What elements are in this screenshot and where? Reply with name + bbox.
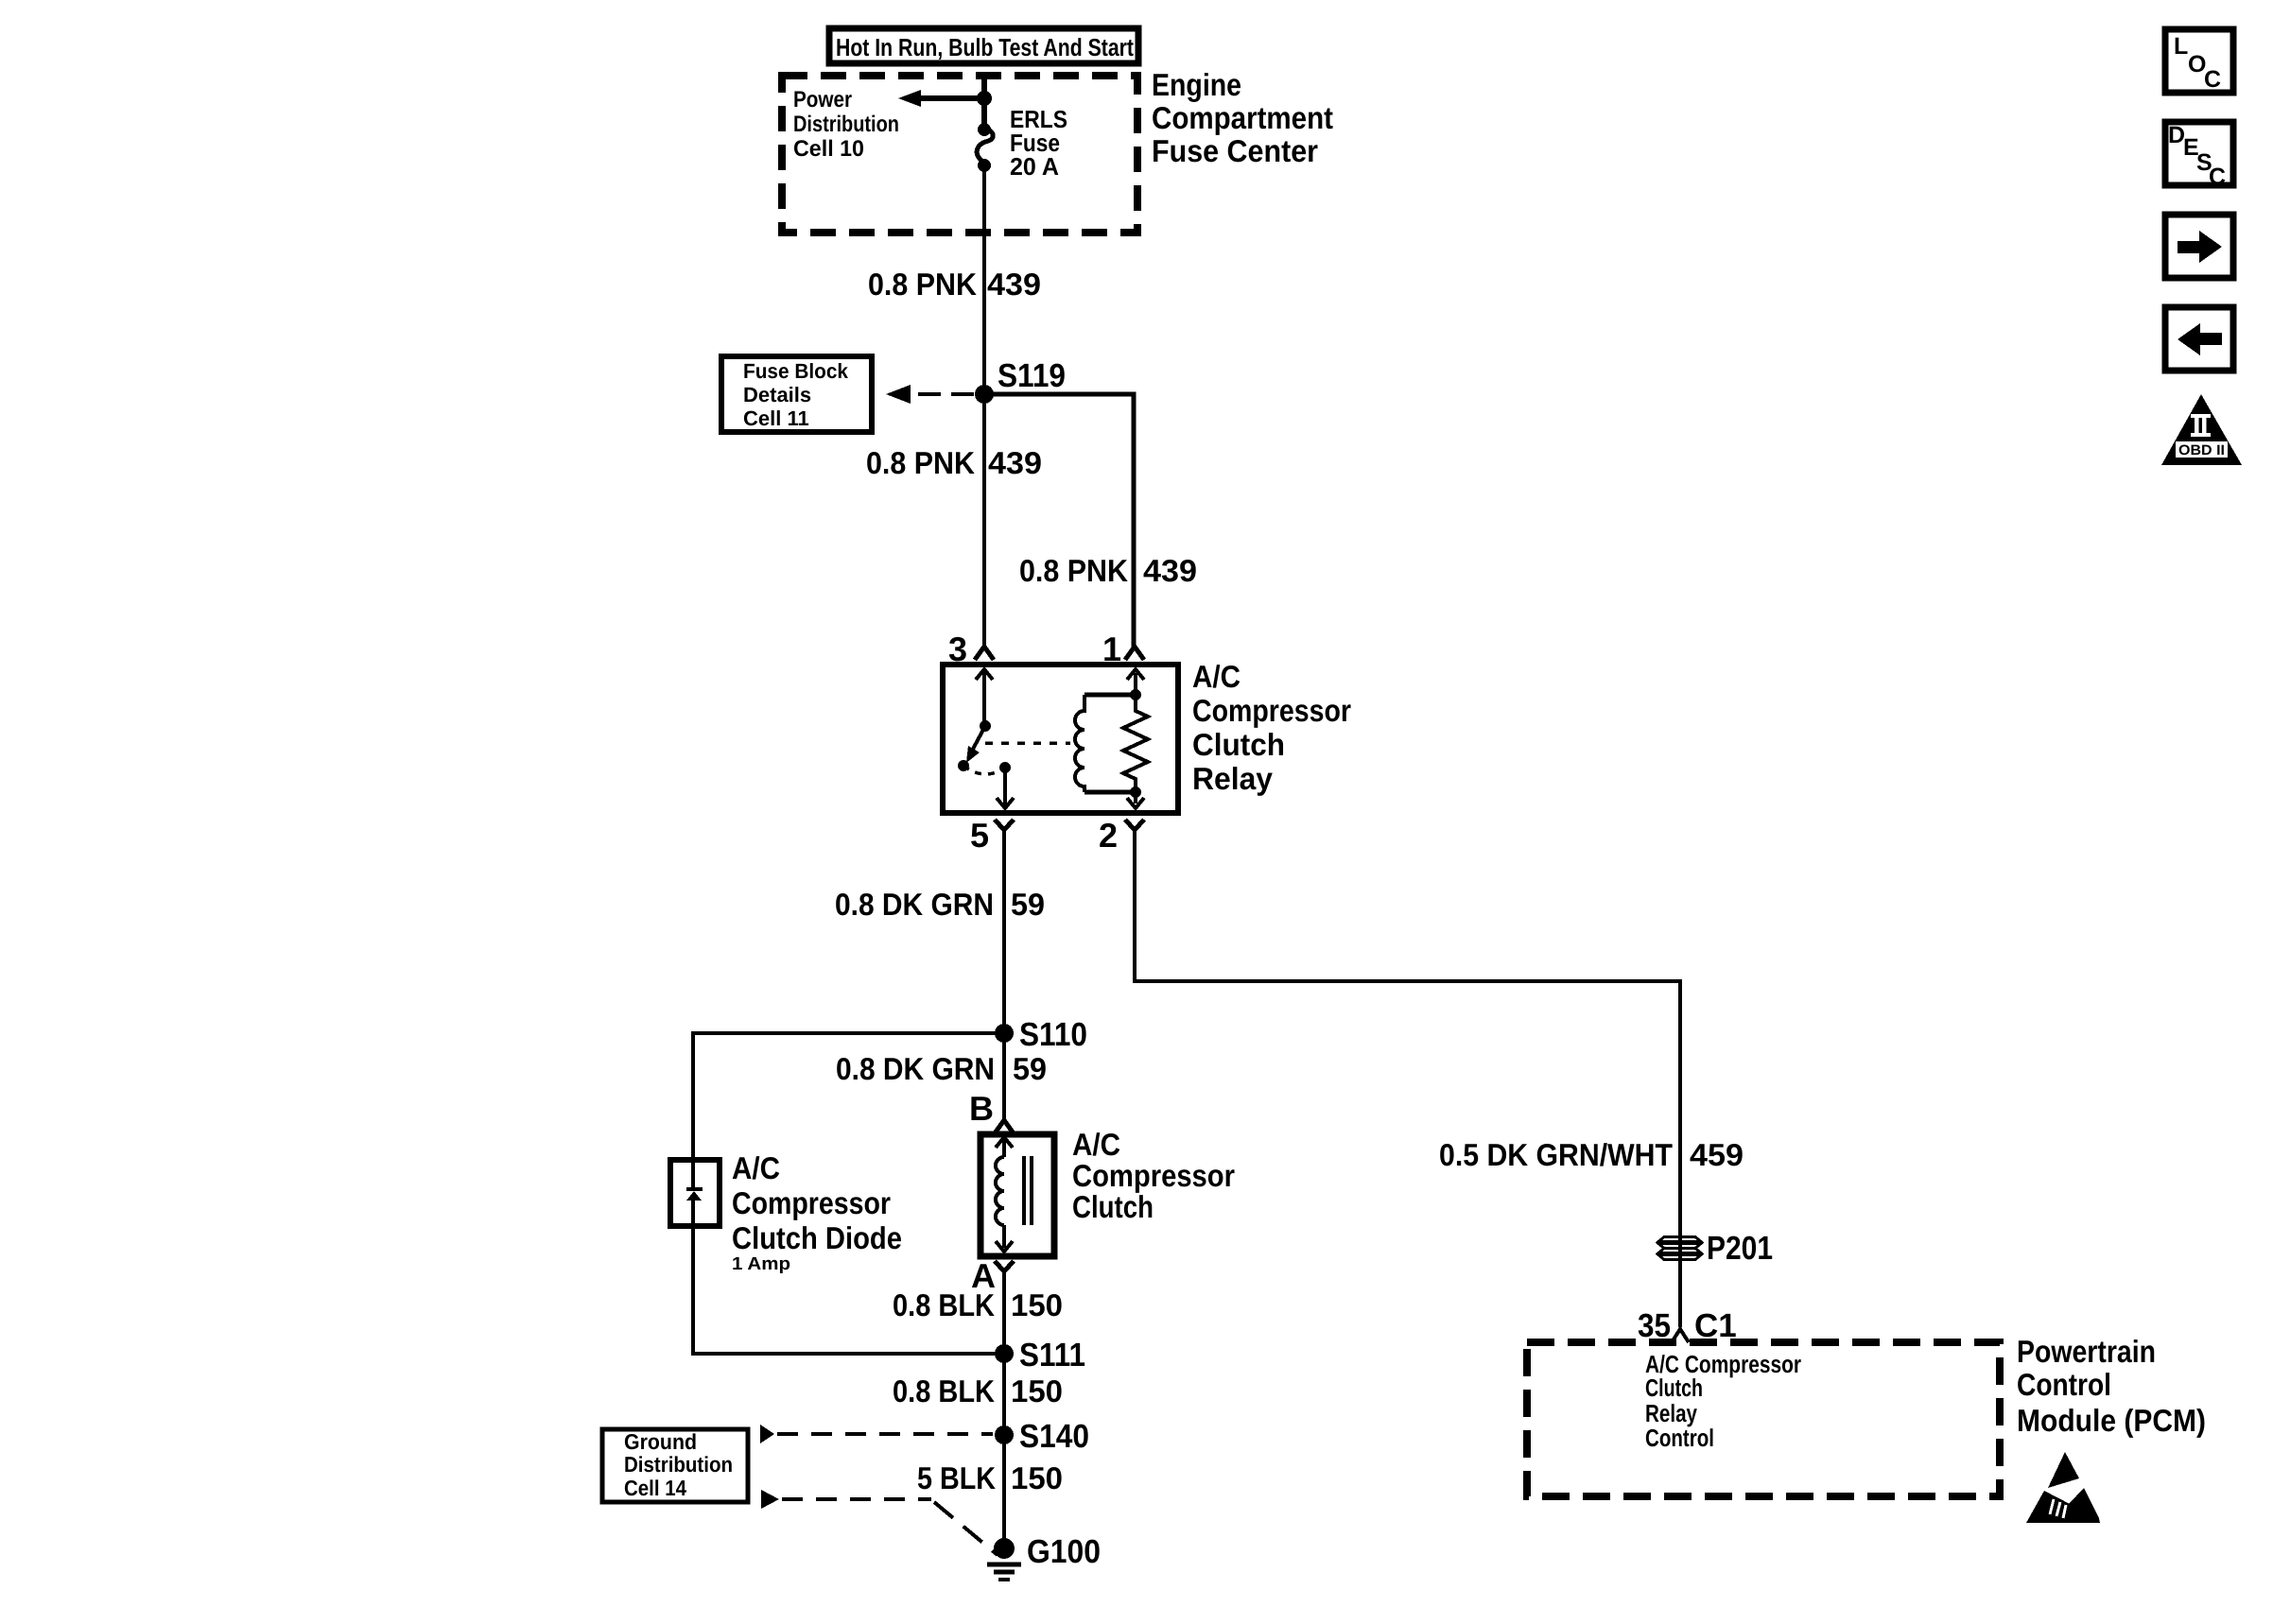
splice S140 bbox=[995, 1418, 1089, 1455]
relay coil bbox=[1075, 689, 1141, 798]
dashed arrow: ground distribution to G100 lead bbox=[761, 1490, 998, 1555]
svg-text:459: 459 bbox=[1690, 1137, 1744, 1172]
svg-text:A/C: A/C bbox=[732, 1150, 780, 1185]
svg-text:0.8 PNK: 0.8 PNK bbox=[1019, 553, 1128, 588]
svg-text:Module (PCM): Module (PCM) bbox=[2017, 1403, 2206, 1438]
wire: relay pin 2 to PCM (0.5 DK GRN/WHT) bbox=[1135, 855, 1680, 1327]
flag box: Hot In Run, Bulb Test And Start bbox=[829, 28, 1138, 63]
svg-text:Clutch: Clutch bbox=[1192, 727, 1285, 762]
mechanical link dashed bbox=[985, 741, 1070, 745]
label: 0.8 PNK 439 bbox=[868, 267, 1041, 302]
svg-text:3: 3 bbox=[948, 630, 967, 668]
svg-text:0.8 BLK: 0.8 BLK bbox=[893, 1287, 995, 1322]
svg-text:S140: S140 bbox=[1019, 1418, 1089, 1455]
svg-text:Power: Power bbox=[793, 87, 852, 112]
dashed arrow: ground distribution to S140 bbox=[760, 1425, 993, 1443]
wire: 0.8 PNK 439 fuse to S119 bbox=[982, 165, 986, 394]
svg-text:0.8 PNK: 0.8 PNK bbox=[866, 445, 975, 480]
wire: S119 right and down to relay pin 1 bbox=[984, 394, 1134, 647]
wire: S111 to S140 bbox=[1002, 1354, 1006, 1435]
svg-text:Powertrain: Powertrain bbox=[2017, 1334, 2156, 1369]
svg-text:Details: Details bbox=[743, 383, 811, 406]
svg-text:C: C bbox=[2209, 164, 2226, 190]
svg-text:Distribution: Distribution bbox=[793, 112, 899, 137]
label: A/C Compressor Clutch Relay bbox=[1192, 659, 1351, 796]
svg-text:1 Amp: 1 Amp bbox=[732, 1254, 790, 1274]
svg-text:Fuse Block: Fuse Block bbox=[743, 359, 849, 383]
wire: ignition feed into fuse bbox=[981, 74, 987, 130]
label: Powertrain Control Module (PCM) bbox=[2017, 1334, 2206, 1438]
relay switch bbox=[958, 669, 1014, 808]
svg-text:439: 439 bbox=[988, 445, 1042, 480]
reference box: Fuse Block Details Cell 11 bbox=[721, 356, 872, 432]
label: A/C Compressor Clutch bbox=[1072, 1127, 1235, 1224]
svg-text:5 BLK: 5 BLK bbox=[917, 1460, 996, 1495]
arrow to Power Distribution bbox=[898, 90, 992, 107]
icon arrow right bbox=[2165, 215, 2233, 278]
svg-text:59: 59 bbox=[1013, 1051, 1047, 1086]
label: 0.8 PNK 439 bbox=[866, 445, 1042, 480]
svg-text:P201: P201 bbox=[1707, 1230, 1773, 1267]
label: 0.8 DK GRN 59 bbox=[835, 887, 1045, 922]
A/C Compressor Clutch box bbox=[980, 1134, 1054, 1256]
wire: S110 down to clutch B bbox=[1002, 1033, 1006, 1120]
label: 0.8 BLK 150 bbox=[893, 1287, 1063, 1322]
svg-text:L: L bbox=[2174, 33, 2188, 60]
svg-text:Compartment: Compartment bbox=[1152, 100, 1333, 135]
svg-text:Control: Control bbox=[1645, 1424, 1714, 1452]
relay box bbox=[943, 665, 1178, 813]
pin 2 terminal bbox=[1099, 816, 1144, 855]
svg-text:Cell 14: Cell 14 bbox=[624, 1476, 686, 1500]
svg-text:150: 150 bbox=[1011, 1287, 1063, 1322]
wire: S140 to G100 (5 BLK) bbox=[1002, 1435, 1006, 1548]
svg-text:20 A: 20 A bbox=[1010, 152, 1059, 181]
reference text: Power Distribution Cell 10 bbox=[793, 87, 899, 162]
pin 5 terminal bbox=[970, 816, 1014, 855]
svg-text:A/C: A/C bbox=[1072, 1127, 1120, 1162]
svg-text:S111: S111 bbox=[1019, 1337, 1085, 1373]
svg-text:5: 5 bbox=[970, 816, 989, 855]
svg-text:Compressor: Compressor bbox=[732, 1185, 891, 1220]
wire: S119 down to relay pin 3 bbox=[982, 394, 986, 647]
svg-text:C: C bbox=[2204, 66, 2221, 93]
svg-text:G100: G100 bbox=[1027, 1533, 1101, 1570]
terminal A bbox=[971, 1256, 1014, 1295]
label: 5 BLK 150 bbox=[917, 1460, 1063, 1495]
svg-text:Distribution: Distribution bbox=[624, 1452, 733, 1477]
wire: S110 to diode branch bbox=[693, 1033, 1004, 1157]
svg-text:0.8 DK GRN: 0.8 DK GRN bbox=[835, 887, 994, 922]
svg-text:Control: Control bbox=[2017, 1367, 2111, 1402]
splice S110 bbox=[995, 1016, 1087, 1053]
PCM pin function text bbox=[1645, 1350, 1801, 1452]
PCM dashed box bbox=[1527, 1342, 2000, 1496]
splice S111 bbox=[995, 1337, 1085, 1373]
pin 35 C1 terminal bbox=[1638, 1307, 1737, 1344]
svg-text:59: 59 bbox=[1011, 887, 1045, 922]
svg-text:Compressor: Compressor bbox=[1072, 1158, 1235, 1193]
label: 0.8 DK GRN 59 bbox=[836, 1051, 1047, 1086]
splice S119 bbox=[975, 357, 1066, 404]
svg-text:Clutch Diode: Clutch Diode bbox=[732, 1220, 902, 1255]
label: 0.5 DK GRN/WHT 459 bbox=[1439, 1137, 1744, 1172]
svg-text:Hot In Run, Bulb Test And Star: Hot In Run, Bulb Test And Start bbox=[836, 33, 1134, 61]
svg-text:0.8 PNK: 0.8 PNK bbox=[868, 267, 977, 302]
wire: relay pin 5 to S110 (0.8 DK GRN) bbox=[1002, 855, 1006, 1033]
svg-text:150: 150 bbox=[1011, 1460, 1063, 1495]
svg-text:439: 439 bbox=[987, 267, 1041, 302]
svg-text:S110: S110 bbox=[1019, 1016, 1087, 1053]
svg-text:S119: S119 bbox=[998, 357, 1066, 394]
label: Engine Compartment Fuse Center bbox=[1152, 67, 1333, 168]
svg-text:Clutch: Clutch bbox=[1072, 1189, 1154, 1224]
label: 0.8 BLK 150 bbox=[893, 1373, 1063, 1408]
pin 1 terminal bbox=[1102, 630, 1144, 668]
terminal B bbox=[969, 1089, 1014, 1133]
reference box: Ground Distribution Cell 14 bbox=[602, 1429, 748, 1502]
ground G100 bbox=[987, 1533, 1101, 1580]
ESD warning symbol bbox=[2026, 1452, 2100, 1523]
svg-text:0.5 DK GRN/WHT: 0.5 DK GRN/WHT bbox=[1439, 1137, 1673, 1172]
svg-text:1: 1 bbox=[1102, 630, 1121, 668]
svg-text:150: 150 bbox=[1011, 1373, 1063, 1408]
Engine Compartment Fuse Center dashed box bbox=[782, 76, 1137, 233]
svg-text:Cell 11: Cell 11 bbox=[743, 406, 809, 430]
svg-text:B: B bbox=[969, 1089, 994, 1128]
label: A/C Compressor Clutch Diode 1 Amp bbox=[732, 1150, 902, 1274]
svg-text:Cell 10: Cell 10 bbox=[793, 136, 864, 162]
svg-text:Ground: Ground bbox=[624, 1429, 697, 1454]
svg-text:439: 439 bbox=[1143, 553, 1197, 588]
icon OBD II triangle bbox=[2161, 394, 2242, 465]
icon DESC bbox=[2165, 122, 2233, 190]
A/C Compressor Clutch Diode box bbox=[670, 1160, 720, 1226]
svg-text:Relay: Relay bbox=[1192, 761, 1274, 796]
connector P201 bbox=[1657, 1230, 1773, 1267]
svg-text:OBD II: OBD II bbox=[2178, 442, 2225, 458]
svg-text:Engine: Engine bbox=[1152, 67, 1241, 102]
pin 3 terminal bbox=[948, 630, 994, 668]
icon LOC bbox=[2165, 29, 2233, 93]
svg-text:0.8 BLK: 0.8 BLK bbox=[893, 1373, 995, 1408]
svg-text:Clutch: Clutch bbox=[1645, 1373, 1703, 1402]
fuse ERLS 20 A bbox=[977, 123, 993, 172]
svg-text:2: 2 bbox=[1099, 816, 1118, 855]
clutch coil and plates bbox=[996, 1137, 1032, 1252]
label: ERLS Fuse 20 A bbox=[1010, 105, 1067, 181]
label: 0.8 PNK 439 bbox=[1019, 553, 1197, 588]
icon arrow left bbox=[2165, 307, 2233, 371]
dashed arrow to Fuse Block Details bbox=[886, 385, 974, 404]
svg-text:Fuse Center: Fuse Center bbox=[1152, 133, 1318, 168]
wire: clutch A to S111 bbox=[1002, 1271, 1006, 1354]
svg-text:0.8 DK GRN: 0.8 DK GRN bbox=[836, 1051, 995, 1086]
svg-text:A/C: A/C bbox=[1192, 659, 1241, 694]
svg-text:Compressor: Compressor bbox=[1192, 693, 1351, 728]
relay coil suppression resistor bbox=[1123, 669, 1148, 808]
wire: diode bottom to S111 bbox=[693, 1226, 1004, 1354]
